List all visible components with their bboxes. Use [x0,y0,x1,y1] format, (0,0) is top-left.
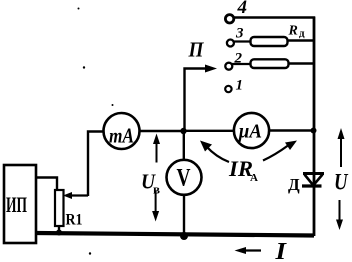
label Uв [141,170,160,197]
wire node A to voltmeter [183,131,185,160]
svg-text:U: U [334,170,349,195]
svg-text:R: R [288,24,298,39]
resistor Rд (range 2) [251,59,289,68]
resistor Rд (range 3) [251,37,288,46]
microammeter µA [234,113,269,148]
wire resistor Rд lower to right bus [289,62,315,64]
node C junction [180,232,188,240]
switch contact 3 [227,40,234,47]
wire µA to node B [269,129,314,131]
power supply ИП [4,165,36,243]
wire contact 3 to resistor Rд upper [234,40,251,42]
rheostat wiper arrow [63,192,88,199]
svg-text:I: I [274,239,287,262]
wire voltmeter to node C [183,195,185,236]
voltage IRА annotation right curved arrow [263,141,297,161]
svg-text:µA: µA [238,121,262,143]
wire contact 4 to right bus [234,16,315,19]
switch contact 2 [225,63,232,70]
wire resistor Rд upper to right bus [288,39,315,41]
wire right bus [313,17,316,237]
voltage U annotation upper arrow [338,128,345,167]
switch П common wire with pointer arrow [185,65,218,131]
node B junction [311,128,317,134]
bottom bus wire [36,233,314,236]
label Rд [288,24,306,40]
svg-text:А: А [250,172,258,184]
svg-text:д: д [299,28,305,40]
wire ИП top terminal to R1 top [36,178,57,192]
diode Д [302,174,324,187]
voltage Uв annotation upper arrow [153,134,160,163]
rheostat R1 [55,190,64,226]
wire contact 2 to resistor Rд lower [232,63,251,65]
wire mA to node A [140,130,185,132]
wire node A to µA meter [184,130,235,132]
wire wiper to mA meter [88,132,104,197]
voltage U annotation lower arrow [336,200,343,230]
svg-text:3: 3 [235,26,244,42]
current I arrow [235,247,262,254]
voltmeter V [167,160,202,195]
voltage Uв annotation lower arrow [152,191,159,222]
wire R1 bottom to bottom bus [58,225,60,234]
svg-text:1: 1 [236,78,244,94]
svg-text:П: П [188,38,205,62]
svg-text:ИП: ИП [6,192,27,217]
svg-text:V: V [177,165,191,192]
switch contact 1 [225,86,231,92]
node A junction [180,128,186,134]
label IRА [228,156,258,184]
svg-text:R1: R1 [66,212,83,229]
junction R1 / bottom bus [56,230,62,236]
switch contact 4 [225,15,233,23]
svg-text:mA: mA [109,124,134,148]
voltage IRА annotation left curved arrow [200,141,229,163]
svg-text:4: 4 [237,0,248,18]
svg-text:Д: Д [288,175,300,194]
milliammeter mA [104,113,140,149]
